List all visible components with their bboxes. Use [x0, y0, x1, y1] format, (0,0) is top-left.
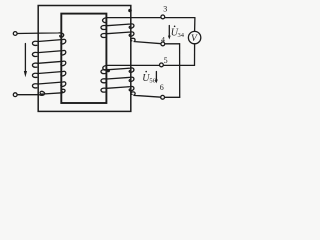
core outer rectangle: [38, 6, 131, 112]
core inner rectangle: [61, 14, 106, 103]
wire: series link from 4-corner down across wire5 to 6-corner: [179, 44, 181, 98]
terminal (bottom-left): [13, 93, 17, 97]
wire: bottom-left terminal lead with curl: [17, 89, 65, 95]
wire: voltmeter bottom to wire 5: [194, 44, 196, 66]
terminal 5: [160, 63, 164, 67]
terminal 6: [161, 95, 165, 99]
winding W1 turn 5: [32, 82, 65, 88]
svg-text:56: 56: [149, 77, 156, 84]
winding W3 turn 3: [101, 86, 134, 92]
winding W2 turn 2: [101, 32, 134, 38]
winding W1 turn 4: [32, 71, 65, 77]
svg-text:3: 3: [163, 5, 167, 14]
polarity dot W2: [128, 9, 132, 13]
winding W3 turn 2: [101, 77, 134, 83]
wire 6: from winding W3 bottom to terminal 6 and corner: [131, 92, 180, 97]
svg-text:5: 5: [164, 56, 168, 65]
winding W1 turn 1: [32, 39, 65, 45]
polarity dot W3: [107, 69, 110, 72]
winding W1 turn 2: [32, 50, 65, 56]
svg-text:4: 4: [161, 36, 165, 45]
terminal (top-left): [13, 32, 17, 36]
winding W3 turn 1: [101, 68, 134, 74]
wire: from 3-corner down to voltmeter top: [194, 18, 196, 32]
svg-text:6: 6: [160, 83, 164, 92]
terminal 3: [161, 15, 165, 19]
voltmeter V1: [188, 31, 200, 43]
voltage arrow U34: [168, 26, 170, 37]
winding W2 turn 1: [101, 24, 134, 30]
wire 5: from winding W3 top to the right: [103, 65, 195, 70]
wire: top-left terminal lead: [17, 33, 64, 37]
wire 3: from winding W2 top to the right: [103, 18, 195, 23]
svg-text:34: 34: [178, 32, 185, 39]
wire 4: from winding W2 bottom to terminal 4 and corner: [131, 38, 180, 44]
terminal 4: [161, 42, 165, 46]
current arrow (left, pointing down): [24, 44, 26, 72]
winding W1 turn 3: [32, 61, 65, 67]
voltage arrow U56: [155, 72, 157, 80]
